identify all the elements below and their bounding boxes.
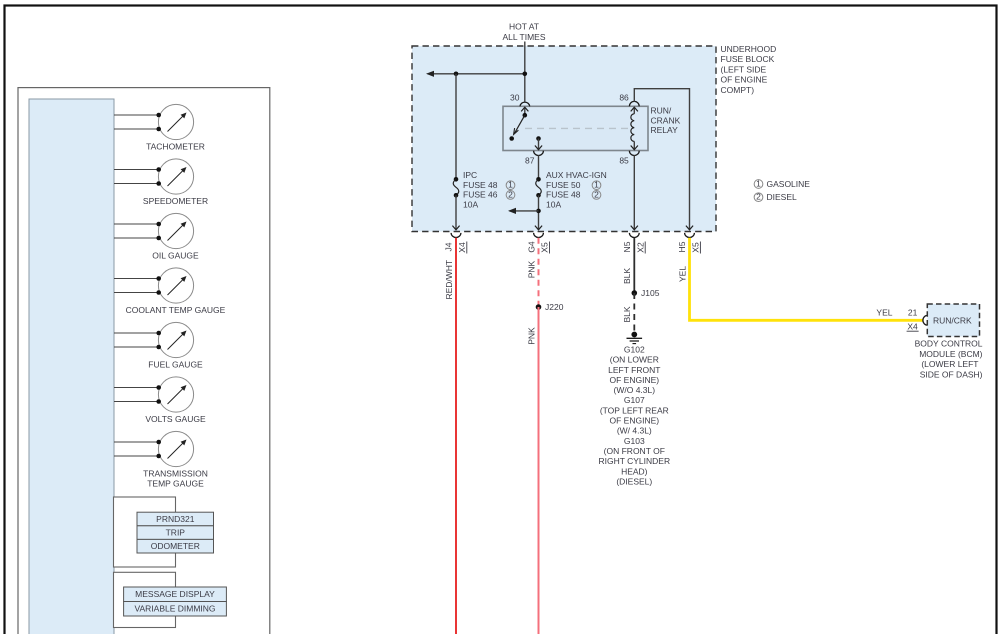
- svg-text:(ON FRONT OF: (ON FRONT OF: [604, 446, 665, 456]
- display row PRND321: [137, 512, 214, 526]
- svg-text:10A: 10A: [546, 199, 561, 209]
- svg-text:2: 2: [594, 189, 599, 199]
- svg-text:FUSE 46: FUSE 46: [463, 190, 498, 200]
- svg-text:LEFT FRONT: LEFT FRONT: [608, 365, 660, 375]
- svg-text:G103: G103: [624, 436, 645, 446]
- svg-text:1: 1: [594, 180, 599, 190]
- wire BLK dashed segment: [633, 293, 635, 335]
- svg-text:COMPT): COMPT): [721, 85, 755, 95]
- svg-text:N5: N5: [622, 241, 632, 252]
- svg-text:G4: G4: [526, 241, 536, 253]
- wire YEL: [690, 238, 924, 320]
- gauge OIL GAUGE: [114, 213, 194, 248]
- relay actuator dashed link: [525, 127, 629, 129]
- connector cup J4/X4: [451, 233, 461, 238]
- wire switch output to pin 87: [538, 139, 540, 150]
- svg-text:CRANK: CRANK: [651, 115, 681, 125]
- wire feed from HOT AT into pin 30: [524, 42, 526, 102]
- splice J220: [536, 304, 542, 310]
- svg-text:10A: 10A: [463, 199, 478, 209]
- svg-text:PNK: PNK: [527, 260, 537, 278]
- relay switch contact node: [509, 136, 514, 141]
- svg-text:RUN/CRK: RUN/CRK: [933, 315, 972, 325]
- footnote mark 1 (IPC): [506, 181, 515, 190]
- svg-text:TEMP GAUGE: TEMP GAUGE: [147, 478, 204, 488]
- svg-text:OF ENGINE: OF ENGINE: [721, 75, 768, 85]
- wire pin 86 elbow to right side: [634, 89, 689, 230]
- svg-text:BLK: BLK: [622, 306, 632, 322]
- gauge SPEEDOMETER: [114, 159, 194, 194]
- svg-text:YEL: YEL: [677, 266, 687, 282]
- wire PNK dashed segment: [538, 238, 540, 307]
- svg-text:ODOMETER: ODOMETER: [151, 541, 200, 551]
- connector cup N5/X2: [629, 233, 639, 238]
- connector cup G4/X5: [534, 233, 544, 238]
- svg-text:MODULE (BCM): MODULE (BCM): [919, 349, 982, 359]
- svg-text:BODY CONTROL: BODY CONTROL: [915, 339, 983, 349]
- svg-text:X2: X2: [635, 242, 645, 253]
- svg-text:87: 87: [525, 156, 535, 166]
- svg-text:RED/WHT: RED/WHT: [444, 260, 454, 300]
- svg-text:FUEL GAUGE: FUEL GAUGE: [148, 360, 203, 370]
- svg-text:HEAD): HEAD): [621, 466, 648, 476]
- svg-text:PNK: PNK: [527, 327, 537, 345]
- svg-text:2: 2: [508, 189, 513, 199]
- wire IPC fuse to connector J4: [455, 195, 457, 230]
- svg-text:X4: X4: [457, 242, 467, 253]
- svg-text:HOT AT: HOT AT: [509, 22, 539, 32]
- pin 86 connector cup: [629, 101, 639, 106]
- relay switch common node: [523, 113, 528, 118]
- svg-text:(TOP LEFT REAR: (TOP LEFT REAR: [600, 405, 669, 415]
- wire branch to other circuits (left arrow): [428, 73, 525, 75]
- instrument panel cluster box: [18, 88, 270, 634]
- splice J105: [632, 290, 638, 296]
- svg-text:BLK: BLK: [622, 268, 632, 284]
- svg-text:MESSAGE DISPLAY: MESSAGE DISPLAY: [135, 589, 215, 599]
- svg-text:2: 2: [756, 192, 761, 202]
- svg-text:COOLANT TEMP GAUGE: COOLANT TEMP GAUGE: [126, 305, 226, 315]
- svg-text:ALL TIMES: ALL TIMES: [503, 32, 546, 42]
- connector exit arrows at fuse block bottom: [452, 226, 459, 230]
- svg-text:DIESEL: DIESEL: [767, 192, 798, 202]
- node junction IPC branch: [454, 72, 459, 77]
- svg-text:(W/O 4.3L): (W/O 4.3L): [614, 385, 656, 395]
- svg-text:21: 21: [908, 307, 918, 317]
- wire pin 85 down to connector: [633, 155, 635, 230]
- svg-text:RIGHT CYLINDER: RIGHT CYLINDER: [598, 456, 670, 466]
- svg-text:FUSE 48: FUSE 48: [546, 190, 581, 200]
- svg-text:PRND321: PRND321: [156, 514, 195, 524]
- relay coil: [633, 107, 635, 114]
- gauge VOLTS GAUGE: [114, 377, 194, 412]
- pin 30 connector cup: [520, 102, 530, 106]
- display row VARIABLE DIMMING: [124, 602, 227, 617]
- svg-text:(W/ 4.3L): (W/ 4.3L): [617, 426, 652, 436]
- message display connector stub box: [114, 572, 176, 627]
- svg-text:AUX HVAC-IGN: AUX HVAC-IGN: [546, 170, 607, 180]
- svg-text:VARIABLE DIMMING: VARIABLE DIMMING: [134, 604, 215, 614]
- svg-text:YEL: YEL: [876, 307, 892, 317]
- svg-text:(LOWER LEFT: (LOWER LEFT: [921, 359, 978, 369]
- legend footnote 2 DIESEL: [754, 193, 763, 202]
- svg-text:85: 85: [619, 156, 629, 166]
- underhood fuse block (dashed box): [412, 46, 716, 232]
- connector cup H5/X5: [685, 233, 695, 238]
- footnote mark 1 (AUX): [592, 181, 601, 190]
- svg-text:1: 1: [508, 180, 513, 190]
- svg-text:30: 30: [510, 93, 520, 103]
- pin 85 connector cup: [629, 151, 639, 156]
- svg-text:SIDE OF DASH): SIDE OF DASH): [920, 369, 983, 379]
- fuse AUX HVAC-IGN FUSE 50/FUSE 48 10A: [538, 155, 540, 179]
- svg-text:(LEFT SIDE: (LEFT SIDE: [721, 64, 767, 74]
- relay box RUN/CRANK RELAY: [503, 106, 648, 150]
- display row MESSAGE DISPLAY: [124, 587, 227, 602]
- svg-text:TACHOMETER: TACHOMETER: [146, 142, 205, 152]
- svg-text:(ON LOWER: (ON LOWER: [610, 355, 659, 365]
- svg-text:J220: J220: [545, 302, 564, 312]
- svg-text:X5: X5: [540, 242, 550, 253]
- svg-text:G107: G107: [624, 395, 645, 405]
- svg-text:1: 1: [756, 179, 761, 189]
- svg-text:TRIP: TRIP: [166, 528, 186, 538]
- svg-text:J105: J105: [641, 288, 660, 298]
- svg-text:RUN/: RUN/: [651, 106, 672, 116]
- footnote mark 2 (AUX): [592, 191, 601, 200]
- svg-text:SPEEDOMETER: SPEEDOMETER: [143, 196, 208, 206]
- svg-text:OF ENGINE): OF ENGINE): [610, 416, 660, 426]
- svg-text:OF ENGINE): OF ENGINE): [610, 375, 660, 385]
- svg-text:J4: J4: [444, 242, 454, 251]
- wire IPC branch down to fuse: [455, 74, 457, 180]
- svg-text:H5: H5: [677, 241, 687, 252]
- gauge FUEL GAUGE: [114, 322, 194, 357]
- footnote mark 2 (IPC): [506, 191, 515, 200]
- wire BLK solid segment: [633, 238, 635, 293]
- ground G102/G107/G103: [631, 332, 637, 338]
- body control module box (dashed): [927, 304, 979, 337]
- pin 30 arrow into relay: [524, 107, 526, 115]
- gauge COOLANT TEMP GAUGE: [114, 268, 194, 303]
- IPC blue body: [29, 99, 114, 634]
- svg-text:OIL GAUGE: OIL GAUGE: [152, 251, 199, 261]
- svg-text:(DIESEL): (DIESEL): [616, 476, 652, 486]
- svg-text:IPC: IPC: [463, 170, 477, 180]
- relay switch output node: [536, 136, 541, 141]
- svg-text:FUSE 50: FUSE 50: [546, 180, 581, 190]
- node AUX branch junction: [536, 209, 541, 214]
- svg-text:FUSE 48: FUSE 48: [463, 180, 498, 190]
- svg-text:86: 86: [619, 93, 629, 103]
- display row ODOMETER: [137, 539, 214, 553]
- PRND321/TRIP/ODOMETER connector stub box: [114, 497, 176, 567]
- svg-text:VOLTS GAUGE: VOLTS GAUGE: [145, 414, 206, 424]
- relay switch arm: [514, 115, 525, 134]
- svg-text:RELAY: RELAY: [651, 125, 679, 135]
- wire AUX fuse down to connector G4: [538, 195, 540, 230]
- svg-text:TRANSMISSION: TRANSMISSION: [143, 469, 208, 479]
- wire RED/WHT: [455, 238, 457, 634]
- svg-text:X4: X4: [907, 321, 918, 331]
- BCM connector cup: [923, 315, 928, 325]
- svg-text:FUSE BLOCK: FUSE BLOCK: [721, 54, 775, 64]
- node junction at feed: [523, 72, 528, 77]
- legend footnote 1 GASOLINE: [754, 180, 763, 189]
- display row TRIP: [137, 526, 214, 540]
- gauge TRANSMISSION TEMP GAUGE: [114, 431, 194, 466]
- svg-text:G102: G102: [624, 345, 645, 355]
- wire AUX branch to other circuits (left arrow): [510, 210, 539, 212]
- svg-text:UNDERHOOD: UNDERHOOD: [721, 44, 777, 54]
- fuse IPC FUSE 48/FUSE 46 10A: [454, 177, 459, 182]
- svg-text:X5: X5: [691, 242, 701, 253]
- svg-text:GASOLINE: GASOLINE: [767, 179, 811, 189]
- gauge TACHOMETER: [114, 104, 194, 139]
- pin 87 connector cup: [534, 151, 544, 156]
- wire PNK solid segment: [538, 307, 540, 634]
